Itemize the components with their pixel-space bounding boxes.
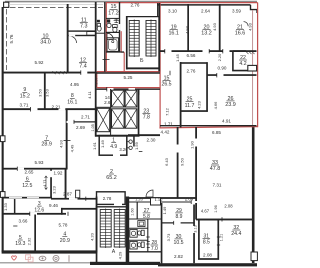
svg-text:2.65: 2.65 xyxy=(25,169,34,174)
wall room11 bottom xyxy=(68,30,96,31)
door tick room8 top xyxy=(80,70,82,75)
svg-text:1.20: 1.20 xyxy=(135,196,144,201)
washer a xyxy=(130,230,137,238)
room30 door gap xyxy=(193,226,195,233)
door gap elevator row a xyxy=(107,88,114,91)
svg-text:5.76: 5.76 xyxy=(9,34,14,43)
svg-text:4.49: 4.49 xyxy=(70,144,75,153)
wall room28 cells xyxy=(129,227,148,229)
towel rail cross xyxy=(114,18,119,23)
svg-text:20.9: 20.9 xyxy=(60,238,70,244)
icon bar xyxy=(68,255,70,262)
wall room25 east x207 xyxy=(206,62,208,111)
svg-text:3.73: 3.73 xyxy=(166,233,171,242)
svg-text:1.59: 1.59 xyxy=(134,141,139,150)
meter icon a xyxy=(129,140,132,143)
svg-text:24.4: 24.4 xyxy=(231,231,241,237)
stair A east wall xyxy=(126,197,128,263)
svg-text:1.90: 1.90 xyxy=(190,140,195,149)
room23 door tick xyxy=(138,90,140,94)
wall room3 bottom right xyxy=(61,208,97,210)
door swing hall south xyxy=(146,190,153,197)
stair A west wall xyxy=(96,206,98,263)
left wc toilet xyxy=(97,24,100,27)
svg-text:6.56: 6.56 xyxy=(187,53,196,58)
svg-text:2.21: 2.21 xyxy=(52,104,61,109)
stair B flight left xyxy=(129,21,139,57)
wall room19|20 xyxy=(187,4,189,51)
door tick room9 bottom xyxy=(30,107,32,112)
svg-text:Б: Б xyxy=(140,58,144,64)
svg-text:17.2: 17.2 xyxy=(108,11,119,17)
door gap room20 xyxy=(203,50,210,52)
wall vestibule|room3 xyxy=(14,199,16,214)
svg-text:1.97: 1.97 xyxy=(93,76,98,85)
door gap room33 west xyxy=(195,139,197,147)
svg-text:4.66: 4.66 xyxy=(213,101,218,110)
svg-text:2.71: 2.71 xyxy=(81,115,90,120)
door gap room9 bottom xyxy=(30,108,37,110)
svg-text:4.93: 4.93 xyxy=(59,139,64,148)
toilet a xyxy=(141,230,144,235)
wall wc east x119.5 xyxy=(119,2,120,52)
wall room7 east xyxy=(66,110,68,170)
door leaf room3 xyxy=(76,190,80,198)
door tick rooms29 top2 xyxy=(190,200,192,204)
elevator shaft col2b xyxy=(112,109,125,128)
svg-text:7.3: 7.3 xyxy=(80,24,88,30)
svg-text:1.10: 1.10 xyxy=(155,197,164,202)
svg-text:3.10: 3.10 xyxy=(168,8,177,13)
svg-text:12.5: 12.5 xyxy=(22,183,32,189)
svg-text:28.9: 28.9 xyxy=(41,142,52,148)
bottom sidewalk line xyxy=(0,262,92,264)
wall rooms9-8 bottom y109 xyxy=(2,108,97,110)
right wall window line upper xyxy=(252,10,254,126)
apartment bottom black wall xyxy=(160,125,257,127)
svg-text:23.9: 23.9 xyxy=(225,102,236,108)
red boundary elevator-row north xyxy=(97,87,160,89)
left wall column notch xyxy=(0,136,5,142)
svg-text:16.6: 16.6 xyxy=(235,31,246,37)
meter icon b xyxy=(129,146,132,149)
door gap rooms5-4 top xyxy=(30,213,38,215)
door tick room6 top xyxy=(16,167,18,171)
wall room25 west x180.5 xyxy=(180,62,182,128)
wall room28 east x148 xyxy=(147,219,149,252)
svg-text:1.71: 1.71 xyxy=(164,121,173,126)
svg-text:1.92: 1.92 xyxy=(54,170,63,175)
svg-text:А: А xyxy=(112,249,116,255)
svg-text:3.13: 3.13 xyxy=(194,225,198,232)
svg-text:7.31: 7.31 xyxy=(213,183,222,188)
svg-text:4.20: 4.20 xyxy=(90,232,95,241)
wall room22 box xyxy=(233,51,248,71)
elevator shaft col2a xyxy=(112,90,125,107)
stair A top wall xyxy=(96,206,127,208)
room22 niche xyxy=(248,65,257,71)
wall corridor west x96 xyxy=(95,2,97,137)
svg-text:2.78: 2.78 xyxy=(103,196,112,201)
door tick room21 inner xyxy=(244,22,249,27)
door gap room8 bottom xyxy=(59,108,66,110)
room31 box xyxy=(199,220,218,259)
wall corridorA west x96.5 xyxy=(96,197,98,253)
wall corridor27 west x128 xyxy=(128,197,130,264)
sink small square xyxy=(107,19,110,22)
wall room28 divider y240 xyxy=(129,239,148,241)
door tick room19 xyxy=(164,49,166,53)
bottom-left outer wall xyxy=(2,250,97,253)
window axis dashed line top xyxy=(10,7,103,9)
door gap room6 top xyxy=(17,168,24,170)
elevator shaft col3a xyxy=(125,90,137,107)
stair A flight left xyxy=(100,210,111,248)
left outer wall xyxy=(2,7,4,252)
wall wc cell divider y32.5 xyxy=(106,31,120,33)
stair B top wall xyxy=(126,16,159,18)
stair B bottom wall xyxy=(126,67,160,69)
room28 door ticks xyxy=(146,236,149,238)
door gap elevator row b xyxy=(129,88,136,91)
svg-text:3.59: 3.59 xyxy=(232,8,241,13)
vestibule wall x134 small xyxy=(133,136,135,147)
red boundary wc vertical 1 xyxy=(120,31,122,52)
vestibule 2.78 box xyxy=(97,192,126,205)
svg-text:8.9: 8.9 xyxy=(176,214,183,220)
window glass line top xyxy=(9,4,103,6)
door arc room12 xyxy=(70,36,77,43)
door tick hall-south xyxy=(85,197,87,201)
elevator divider x110.8 xyxy=(110,89,112,135)
wall room28 bottom y252 xyxy=(128,251,162,253)
svg-text:3.53: 3.53 xyxy=(44,88,49,97)
washbasin circle xyxy=(107,23,111,27)
wall room9|8 xyxy=(44,74,46,110)
left wall axis dashed xyxy=(6,9,8,70)
left wc sink xyxy=(97,20,100,23)
toilet top cell xyxy=(113,25,118,28)
svg-text:2.6: 2.6 xyxy=(104,100,111,105)
wall room6 east xyxy=(50,169,52,199)
icon circle xyxy=(53,255,59,261)
wall room26 top y75 xyxy=(208,74,257,76)
svg-text:4.42: 4.42 xyxy=(161,130,170,135)
door tick corridor8 xyxy=(73,120,75,124)
svg-text:47.8: 47.8 xyxy=(210,166,221,172)
door gap room26 top xyxy=(217,74,224,76)
svg-text:9.50: 9.50 xyxy=(179,157,184,166)
svg-text:19.3: 19.3 xyxy=(15,241,25,247)
wall corridor east x177.5 lower xyxy=(177,127,179,198)
bathtub xyxy=(107,38,119,52)
svg-text:10.5: 10.5 xyxy=(173,240,183,246)
svg-text:4.93: 4.93 xyxy=(247,22,252,31)
svg-text:5.92: 5.92 xyxy=(35,60,44,65)
wall room6 bottom xyxy=(2,197,52,199)
wall x157.5 divider top xyxy=(157,3,159,17)
wall hall west x65.5 xyxy=(65,169,67,199)
door tick room4 top xyxy=(67,212,69,216)
small room1 box xyxy=(99,136,127,156)
door gap room19 xyxy=(165,50,172,52)
door gap corridor east xyxy=(177,145,179,153)
wall wc west x104.8 xyxy=(104,2,105,72)
svg-text:4.95: 4.95 xyxy=(70,82,79,87)
wall room33 bottom y219.5 xyxy=(196,219,254,221)
door tick room21 xyxy=(222,49,224,53)
door gap room21 xyxy=(223,50,230,52)
bottom porch wall xyxy=(90,262,160,265)
wall step connector x63 xyxy=(61,208,63,215)
svg-text:1.96: 1.96 xyxy=(214,205,218,212)
door tick elevator row a xyxy=(106,87,108,91)
svg-text:2.76: 2.76 xyxy=(131,3,140,8)
svg-text:34.0: 34.0 xyxy=(40,40,51,46)
svg-text:4.93: 4.93 xyxy=(212,22,217,31)
stair B flight right xyxy=(146,21,156,57)
room 28 arrows xyxy=(147,242,150,248)
svg-text:9.46: 9.46 xyxy=(49,203,58,208)
svg-text:13.2: 13.2 xyxy=(201,31,212,37)
wall rooms5-4 top y213.5 xyxy=(2,213,66,215)
svg-text:7.4: 7.4 xyxy=(79,64,87,70)
door gap wc east xyxy=(119,24,121,30)
wall room12 top xyxy=(68,35,96,36)
svg-text:1.61: 1.61 xyxy=(92,141,97,150)
svg-text:7.0: 7.0 xyxy=(151,246,158,252)
red boundary top xyxy=(106,2,258,4)
door gap room12 top xyxy=(69,35,75,37)
elevator block bottom wall xyxy=(95,135,140,137)
svg-text:2.04: 2.04 xyxy=(185,197,194,202)
vestibule 2.78 door gap xyxy=(114,203,122,205)
room14 divider y107.5 xyxy=(96,106,111,108)
svg-text:2.76: 2.76 xyxy=(187,69,196,74)
red boundary wc jog xyxy=(121,51,124,53)
wall room32 top x224-252 xyxy=(219,218,253,220)
svg-text:3.23: 3.23 xyxy=(52,185,57,194)
svg-text:12.6: 12.6 xyxy=(34,207,44,213)
wall room27 west xyxy=(136,202,138,220)
svg-text:4.29: 4.29 xyxy=(118,251,123,260)
wall room6 top y168.5 xyxy=(2,168,68,170)
svg-text:16.1: 16.1 xyxy=(168,31,179,37)
svg-text:1.45: 1.45 xyxy=(175,53,180,62)
wall room27|29 x161.5 xyxy=(161,203,163,263)
door gap rooms29 top2 xyxy=(192,201,199,203)
wall room20|21 xyxy=(219,4,221,51)
svg-text:3.50: 3.50 xyxy=(37,88,42,97)
closet room11 xyxy=(87,32,96,36)
stair B west wall xyxy=(126,16,128,70)
room31 door ticks xyxy=(217,236,220,238)
wall bath bottom y52 xyxy=(106,51,124,53)
icon squares xyxy=(26,255,31,260)
svg-text:11.7: 11.7 xyxy=(185,103,195,109)
svg-text:7.8: 7.8 xyxy=(143,115,150,121)
svg-text:4.9: 4.9 xyxy=(110,144,117,150)
door tick room33 bottom xyxy=(221,217,223,221)
svg-text:1.21: 1.21 xyxy=(220,234,224,241)
svg-text:2.64: 2.64 xyxy=(201,8,210,13)
svg-text:3.66: 3.66 xyxy=(19,218,28,223)
dim 4.71 arrow xyxy=(45,176,48,190)
top-right corner step xyxy=(251,5,258,13)
red boundary right xyxy=(257,3,259,128)
bath door arc xyxy=(107,33,113,39)
left wall column notch b xyxy=(0,192,5,198)
wall hatch y72.5 xyxy=(53,71,67,74)
stair A flight right xyxy=(114,210,125,248)
svg-text:0.90: 0.90 xyxy=(218,65,227,70)
room1 door gap xyxy=(113,154,120,157)
toilet b xyxy=(141,242,144,247)
top-left corner column xyxy=(4,2,9,7)
svg-text:4.11: 4.11 xyxy=(87,90,92,98)
wall rooms27-29 top y202 xyxy=(129,201,196,203)
red boundary corridor west xyxy=(96,72,98,88)
door gap rooms8 top xyxy=(81,71,88,73)
room23 bottom wall xyxy=(128,134,160,136)
svg-text:4.23: 4.23 xyxy=(197,100,202,109)
svg-text:2.32: 2.32 xyxy=(26,237,31,246)
svg-text:2.08: 2.08 xyxy=(203,252,212,257)
wall room5|4 xyxy=(34,215,36,253)
red boundary left upper xyxy=(105,3,107,72)
svg-text:7.12: 7.12 xyxy=(164,107,169,116)
top wall right (black) xyxy=(157,4,251,6)
svg-text:1.49: 1.49 xyxy=(162,206,167,215)
wall room33 west x196 xyxy=(195,127,197,220)
svg-text:2.08: 2.08 xyxy=(224,203,233,208)
wall wc top cell bottom y18.5 xyxy=(106,17,120,19)
svg-text:5.25: 5.25 xyxy=(124,75,133,80)
svg-text:16.1: 16.1 xyxy=(67,100,77,106)
svg-text:26.5: 26.5 xyxy=(161,82,171,88)
elevator shaft col1 xyxy=(97,108,110,131)
svg-text:2.69: 2.69 xyxy=(76,125,85,130)
wall rooms29-30 east x194 xyxy=(193,205,195,264)
window room6 bottom b xyxy=(27,197,39,198)
svg-text:6.85: 6.85 xyxy=(212,130,221,135)
door tick room7 east xyxy=(64,140,71,142)
door tick room5 top xyxy=(13,225,17,227)
red boundary stair-east vertical xyxy=(159,3,161,128)
door gap room3 top xyxy=(69,198,78,200)
left wc cell bottom xyxy=(96,32,105,34)
door gap room29-30 xyxy=(174,222,181,224)
red boundary bottom xyxy=(159,127,257,128)
wall corridor8 south y122 xyxy=(66,121,96,123)
red boundary wc vertical 2 xyxy=(123,52,125,71)
room22 hatch top right xyxy=(246,52,255,55)
right outer wall lower xyxy=(252,127,255,263)
window room6 bottom xyxy=(9,197,22,198)
svg-text:4.2: 4.2 xyxy=(239,61,246,67)
wall room3 top xyxy=(51,198,98,200)
closet 27 icon xyxy=(138,221,145,227)
door tick rooms5-4 top xyxy=(29,212,31,216)
door tick room29-30 xyxy=(173,221,175,225)
corridor south black wall y72.8 xyxy=(96,72,160,74)
svg-text:4.67: 4.67 xyxy=(201,209,210,214)
wall hall south y198 xyxy=(127,197,196,199)
wall rooms19-21 bottom y51 xyxy=(160,50,257,52)
svg-text:2.30: 2.30 xyxy=(147,137,156,142)
red boundary corridor south xyxy=(97,71,160,73)
wall rooms9-8 top y72.5 xyxy=(2,72,95,74)
svg-text:4.91: 4.91 xyxy=(222,118,231,123)
svg-text:2.82: 2.82 xyxy=(174,254,183,259)
svg-text:2.20: 2.20 xyxy=(218,54,222,61)
bottom-right outer wall xyxy=(158,263,257,266)
outer top wall (gray) xyxy=(5,1,257,3)
svg-text:1.33: 1.33 xyxy=(3,202,8,211)
wall room25 bottom y111 xyxy=(181,110,208,112)
svg-text:5.8: 5.8 xyxy=(143,214,150,220)
closet room27 xyxy=(151,198,161,205)
svg-text:1.60: 1.60 xyxy=(131,208,135,215)
door tick small room1 south xyxy=(139,150,143,152)
svg-text:5.78: 5.78 xyxy=(59,222,68,227)
right wall column notch xyxy=(251,252,257,261)
door gap room6 east xyxy=(50,171,52,177)
svg-text:2.87: 2.87 xyxy=(63,191,72,196)
wall room29|30 y223 xyxy=(162,222,194,224)
svg-text:5.93: 5.93 xyxy=(35,160,44,165)
washer b xyxy=(130,241,137,249)
svg-text:6.43: 6.43 xyxy=(164,157,169,166)
svg-text:65.2: 65.2 xyxy=(106,175,117,181)
door gap corridor8 xyxy=(67,121,74,123)
door tick red-left wall xyxy=(103,59,110,61)
door tick room26 top xyxy=(216,73,218,77)
elevator row north black wall y89 xyxy=(96,88,160,90)
wall room25 top y63 xyxy=(180,62,208,64)
wall room23 west xyxy=(138,89,140,136)
svg-text:3.71: 3.71 xyxy=(20,102,29,107)
svg-text:8.5: 8.5 xyxy=(203,240,210,246)
wall room10|11 xyxy=(67,4,69,73)
stair B east wall xyxy=(158,3,160,72)
svg-text:1.49: 1.49 xyxy=(100,139,105,148)
elevator shaft col3b xyxy=(125,109,137,128)
stair B well lines xyxy=(138,21,140,57)
svg-text:3.26: 3.26 xyxy=(119,147,128,152)
svg-text:1.05: 1.05 xyxy=(91,124,95,131)
icon eye xyxy=(39,256,46,260)
svg-text:4.93: 4.93 xyxy=(184,25,189,34)
svg-text:15.2: 15.2 xyxy=(20,94,30,100)
door tick room20 xyxy=(208,49,210,53)
icon heart xyxy=(12,256,17,260)
hall15 door tick xyxy=(169,71,171,75)
wall room27 bottom y219 xyxy=(129,218,161,220)
